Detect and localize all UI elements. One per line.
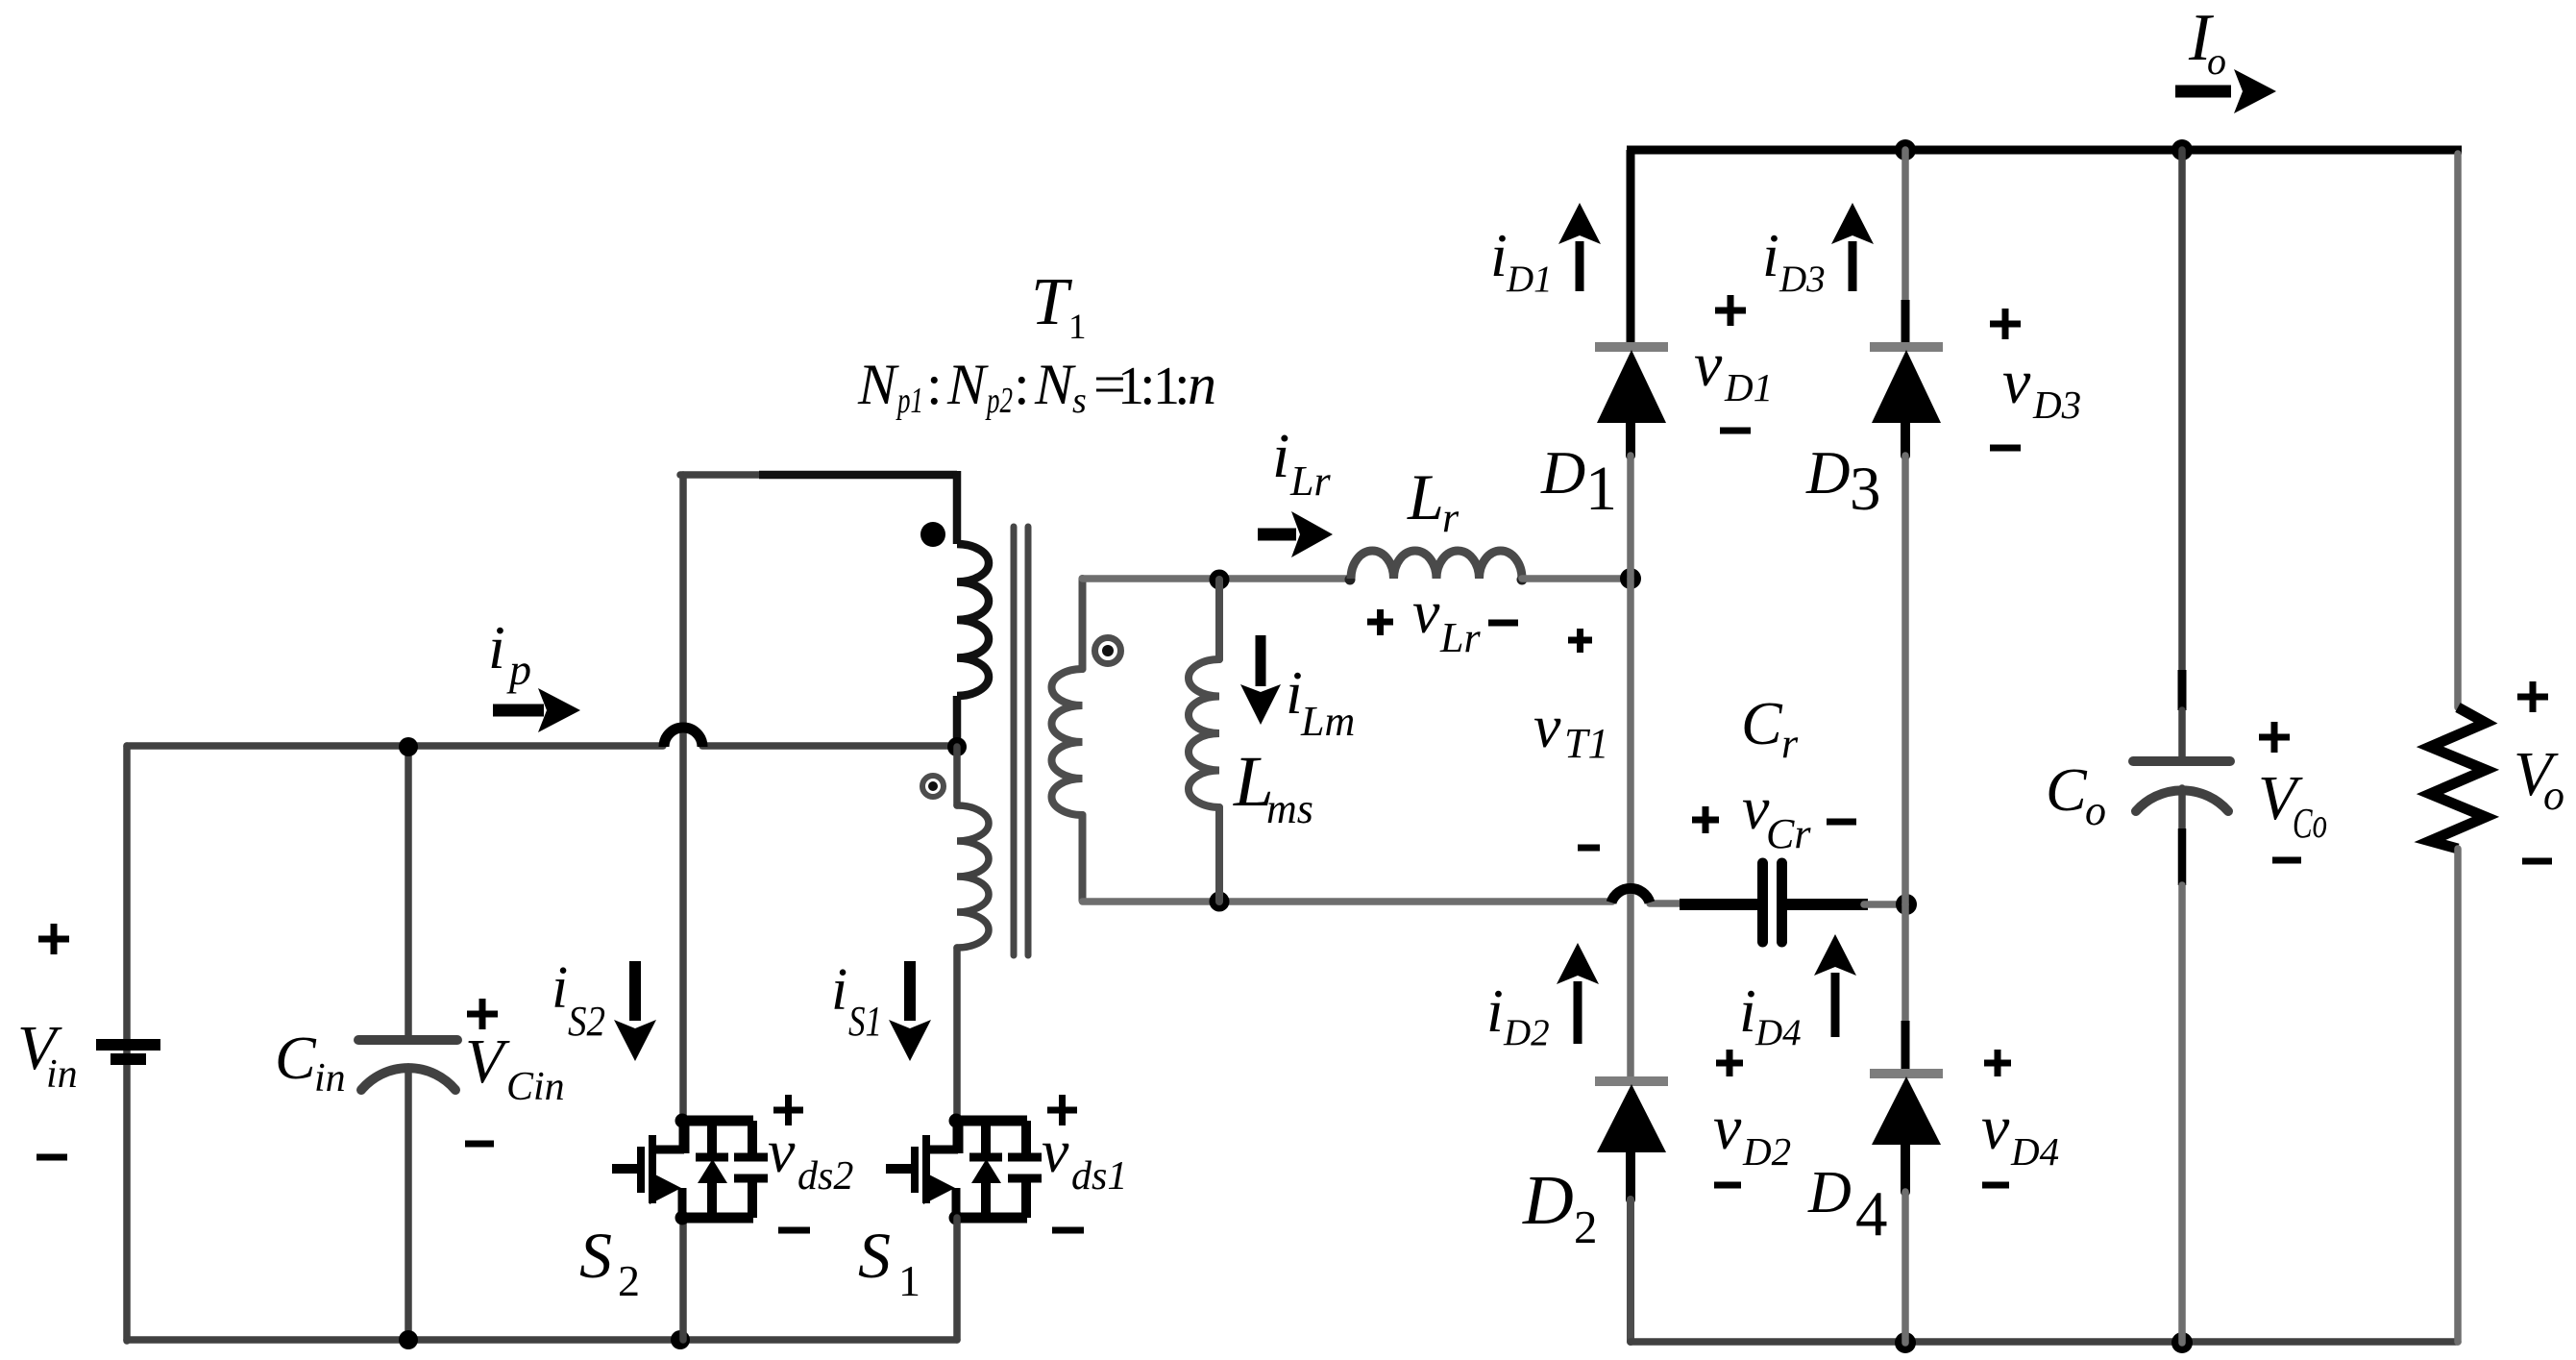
dot polarity Np2 — [920, 522, 945, 547]
svg-text:o: o — [2207, 39, 2226, 83]
wire secondary bottom rail — [1083, 898, 1613, 905]
label v_ds1 plus — [1047, 1095, 1077, 1125]
svg-text:D2: D2 — [1503, 1012, 1550, 1053]
label v_D1 minus — [1720, 428, 1751, 434]
wire S2 branch lower — [679, 1218, 687, 1340]
svg-text:v: v — [1713, 1093, 1742, 1163]
svg-text:p1: p1 — [895, 381, 923, 421]
svg-text:o: o — [2085, 787, 2106, 834]
label V_in minus — [37, 1154, 67, 1161]
wire top rail — [1627, 146, 2462, 155]
svg-text:N: N — [1034, 353, 1076, 416]
svg-text:D3: D3 — [2032, 383, 2081, 427]
svg-text:v: v — [1412, 578, 1440, 646]
arrow i_D4 — [1814, 934, 1856, 1037]
svg-text:ds2: ds2 — [797, 1154, 853, 1199]
node bottom D4 — [1895, 1332, 1916, 1353]
svg-text:i: i — [1762, 221, 1779, 289]
svg-text:Cr: Cr — [1766, 810, 1811, 857]
MOSFET S2 — [612, 1114, 768, 1225]
svg-text:4: 4 — [1855, 1178, 1888, 1249]
svg-text:D: D — [1522, 1161, 1574, 1239]
label v_D2 minus — [1714, 1182, 1741, 1189]
label v_D1 plus — [1715, 295, 1746, 326]
svg-text:D1: D1 — [1506, 259, 1553, 300]
arrow i_S2 — [614, 961, 656, 1061]
svg-text:Lr: Lr — [1439, 614, 1481, 661]
svg-text:D: D — [1805, 439, 1851, 507]
node C_in bottom — [399, 1330, 418, 1349]
svg-text:i: i — [1739, 977, 1756, 1045]
svg-text:Cin: Cin — [506, 1065, 565, 1109]
svg-text:C: C — [1741, 689, 1783, 757]
node centre tap — [947, 737, 967, 756]
transformer T1 primary winding Np2 — [957, 544, 989, 696]
svg-text:D1: D1 — [1724, 365, 1773, 409]
svg-text:i: i — [1486, 977, 1504, 1045]
label v_ds1 minus — [1052, 1227, 1084, 1234]
label v_D3 minus — [1990, 445, 2021, 452]
svg-text:o: o — [2543, 772, 2564, 819]
wire bottom rail right — [1631, 1338, 2458, 1346]
svg-text:1: 1 — [1068, 308, 1087, 347]
dot polarity Ns — [1095, 638, 1121, 664]
svg-text:i: i — [831, 957, 847, 1023]
svg-text:C: C — [275, 1024, 317, 1092]
wire S2 branch upper — [679, 475, 687, 1116]
label v_Cr plus — [1692, 806, 1719, 833]
arrow i_D2 — [1557, 943, 1599, 1044]
node S2 bottom — [671, 1330, 690, 1349]
svg-text:s: s — [1072, 381, 1087, 421]
svg-text:i: i — [1272, 421, 1289, 491]
svg-text:S2: S2 — [568, 998, 605, 1045]
wire D2 anode to rail — [1627, 1199, 1634, 1342]
battery V_in — [96, 1039, 160, 1065]
wire S1 source to rail — [953, 1218, 961, 1340]
diode D1 — [1595, 347, 1668, 456]
label v_T1 plus — [1568, 629, 1592, 653]
wire D3 top lead — [1901, 150, 1909, 300]
transformer T1 primary winding Np1 — [957, 805, 989, 948]
svg-text::: : — [926, 353, 943, 416]
label V_in plus — [38, 924, 69, 954]
svg-text:V: V — [465, 1026, 510, 1097]
svg-text:p: p — [506, 645, 531, 694]
transformer core — [1014, 527, 1028, 955]
primary winding upper lead — [953, 471, 962, 544]
arrow i_Lm — [1240, 635, 1281, 725]
svg-text:v: v — [768, 1117, 796, 1185]
label v_Cr minus — [1827, 819, 1856, 826]
svg-text:D: D — [1807, 1160, 1852, 1225]
svg-text:N: N — [946, 353, 989, 416]
svg-text:r: r — [1781, 720, 1799, 767]
label V_o minus — [2522, 858, 2552, 865]
node L_ms bottom — [1210, 892, 1230, 912]
svg-text:Lr: Lr — [1289, 457, 1331, 505]
wire D4 anode to rail — [1901, 1192, 1909, 1343]
arrow I_o — [2175, 69, 2276, 113]
wire hop over D1-D2 branch — [1611, 888, 1650, 903]
wire secondary top rail — [1083, 575, 1350, 582]
label V_Cin minus — [465, 1141, 494, 1148]
svg-text:S: S — [858, 1219, 891, 1292]
label turns ratio N_p1:N_p2:N_s=1:1:n — [857, 353, 1216, 421]
svg-text:D3: D3 — [1779, 259, 1826, 300]
wire D3 anode to C_r node — [1901, 456, 1909, 904]
dot polarity Np1 — [922, 776, 944, 797]
inductor L_r — [1345, 551, 1528, 585]
wire D1 cathode lead — [1627, 150, 1635, 346]
label v_D4 minus — [1982, 1182, 2009, 1189]
arrow i_Lr — [1258, 511, 1333, 557]
capacitor C_o branch — [2133, 150, 2230, 1343]
inductor L_ms — [1189, 580, 1219, 902]
wire C_r node to D4 — [1901, 904, 1909, 1021]
capacitor C_in — [358, 746, 457, 1341]
svg-text:v: v — [1694, 330, 1723, 400]
wire tap to Np1 — [953, 747, 961, 805]
wire top-left — [127, 742, 663, 750]
svg-text:T1: T1 — [1564, 720, 1608, 767]
wire D1 anode to node — [1627, 456, 1634, 579]
node L_ms top — [1210, 570, 1230, 590]
arrow i_D1 — [1558, 203, 1601, 291]
svg-text:p2: p2 — [985, 381, 1013, 421]
node top Co — [2171, 139, 2193, 161]
node rectifier input top — [1620, 568, 1641, 589]
svg-text:v: v — [1981, 1093, 2010, 1163]
label V_Co plus — [2259, 722, 2290, 753]
svg-text:in: in — [314, 1056, 346, 1100]
diode D4 — [1870, 1074, 1943, 1192]
svg-text:v: v — [1042, 1117, 1069, 1185]
svg-text:2: 2 — [1574, 1200, 1598, 1253]
label V_o plus — [2517, 681, 2548, 712]
node bottom Co — [2171, 1332, 2193, 1353]
svg-text:v: v — [1533, 692, 1561, 760]
load branch — [2430, 154, 2486, 1342]
node C_in top — [399, 737, 418, 756]
wire left rail Vin — [123, 746, 131, 1341]
svg-text:C: C — [2046, 755, 2088, 824]
svg-text:T: T — [1031, 265, 1073, 339]
wire bottom rail left — [127, 1336, 957, 1344]
label v_D3 plus — [1990, 309, 2021, 339]
label v_Lr minus — [1488, 620, 1518, 627]
svg-text:Co: Co — [2293, 800, 2327, 847]
svg-text:n: n — [1188, 353, 1216, 416]
arrow i_p — [493, 688, 580, 732]
svg-text:i: i — [1490, 221, 1508, 289]
primary winding lower lead to tap — [953, 696, 962, 746]
wire Np1 to S1 drain — [953, 948, 961, 1117]
svg-text:S1: S1 — [848, 998, 882, 1045]
svg-text:1: 1 — [1585, 454, 1617, 524]
node C_r right — [1896, 894, 1917, 915]
svg-text:Lm: Lm — [1300, 698, 1355, 745]
wire node to D2 — [1627, 579, 1634, 1077]
label v_T1 minus — [1578, 845, 1600, 852]
node top D3 — [1895, 139, 1916, 161]
wire L_r to node — [1522, 575, 1631, 582]
label V_Cin plus — [467, 999, 498, 1029]
svg-text::: : — [1014, 353, 1030, 416]
svg-text:ds1: ds1 — [1071, 1154, 1127, 1199]
transformer T1 secondary winding Ns — [1052, 579, 1083, 901]
label v_Lr plus — [1367, 609, 1393, 635]
wire S1 top link — [680, 471, 759, 479]
diode D3 — [1870, 347, 1943, 456]
svg-text:v: v — [2002, 347, 2031, 417]
svg-text:i: i — [552, 955, 568, 1021]
arrow i_S1 — [889, 961, 931, 1061]
svg-text:3: 3 — [1850, 455, 1881, 524]
svg-text:S: S — [579, 1219, 612, 1292]
label v_D4 plus — [1984, 1050, 2011, 1076]
wire hop over S2 branch — [664, 728, 702, 747]
svg-text:1: 1 — [898, 1256, 920, 1305]
svg-text:i: i — [488, 613, 505, 681]
arrow i_D3 — [1831, 203, 1874, 291]
svg-text:D4: D4 — [2010, 1129, 2059, 1174]
diode D2 — [1595, 1081, 1668, 1199]
svg-text:ms: ms — [1266, 785, 1313, 832]
svg-text:r: r — [1442, 494, 1460, 541]
svg-text:D2: D2 — [1742, 1129, 1791, 1174]
svg-text:N: N — [857, 353, 899, 416]
svg-text:D4: D4 — [1754, 1012, 1802, 1053]
svg-text:in: in — [46, 1052, 78, 1097]
svg-text:L: L — [1407, 460, 1444, 533]
label V_Co minus — [2272, 857, 2301, 864]
label v_ds2 plus — [773, 1095, 803, 1125]
label v_ds2 minus — [778, 1227, 810, 1234]
capacitor C_r — [1650, 863, 1901, 942]
svg-text:D: D — [1540, 438, 1585, 507]
MOSFET S1 — [886, 1114, 1042, 1225]
wire centre-tap feed — [702, 742, 957, 750]
label v_D2 plus — [1716, 1050, 1743, 1076]
svg-text:2: 2 — [618, 1256, 640, 1305]
